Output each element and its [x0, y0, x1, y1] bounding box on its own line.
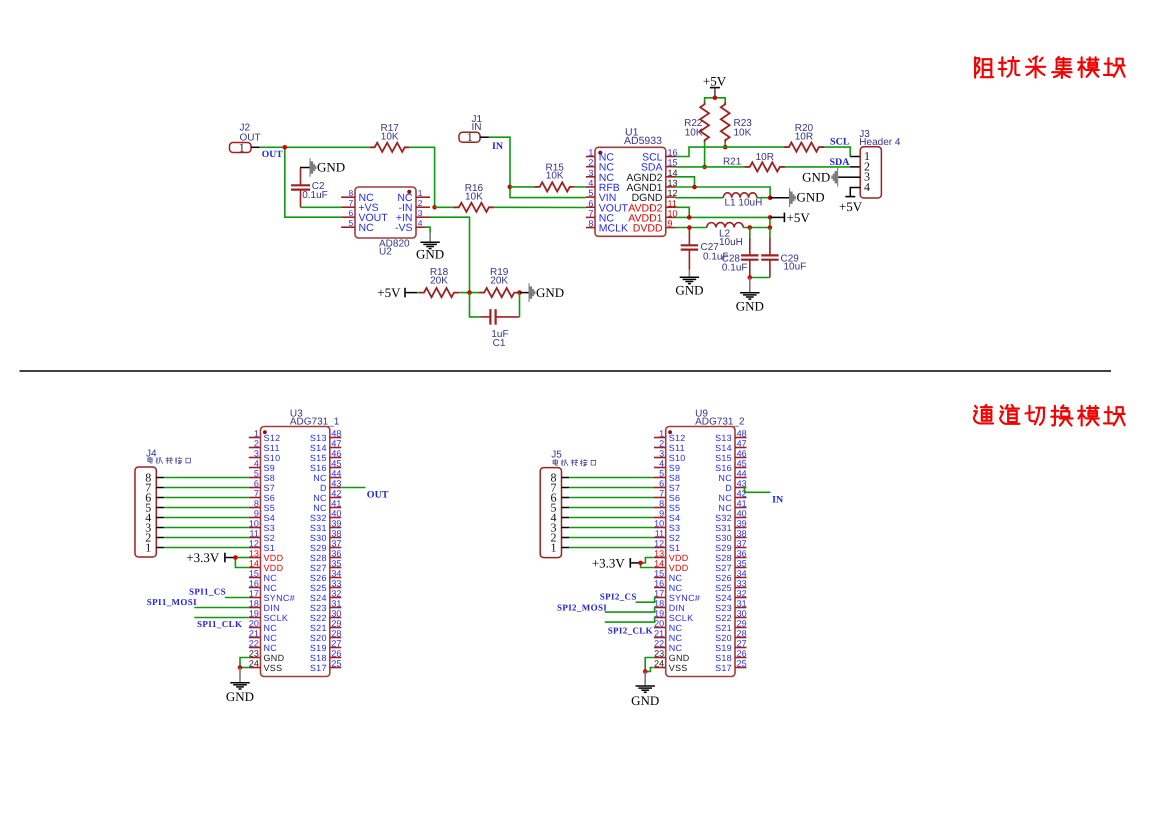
svg-text:SYNC#: SYNC#	[669, 593, 701, 603]
svg-text:OUT: OUT	[367, 489, 389, 500]
svg-text:0.1uF: 0.1uF	[302, 190, 328, 201]
svg-text:J5: J5	[551, 450, 562, 461]
svg-text:S7: S7	[669, 483, 681, 493]
capacitor C2 0.1uF	[291, 168, 328, 207]
wire SPI2_MOSI	[605, 608, 655, 613]
wire GND/VSS pins	[645, 658, 654, 672]
svg-text:21: 21	[654, 629, 664, 639]
svg-text:40: 40	[737, 509, 747, 519]
svg-text:35: 35	[737, 559, 747, 569]
resistor R21 10R	[723, 152, 785, 172]
svg-text:VDD: VDD	[669, 563, 689, 573]
section title: channel switching module (red)	[974, 405, 993, 423]
svg-text:17: 17	[654, 589, 664, 599]
svg-text:NC: NC	[264, 623, 278, 633]
svg-text:2: 2	[588, 158, 593, 168]
svg-text:S2: S2	[264, 533, 276, 543]
ground GND at C28/C29	[736, 278, 764, 314]
svg-text:2: 2	[254, 439, 259, 449]
svg-text:-VS: -VS	[395, 222, 413, 234]
svg-text:+5V: +5V	[787, 210, 811, 225]
svg-text:41: 41	[737, 499, 747, 509]
svg-text:34: 34	[331, 569, 341, 579]
svg-text:1: 1	[254, 429, 259, 439]
resistor R22 10K (vertical)	[684, 102, 709, 142]
svg-text:19: 19	[654, 609, 664, 619]
svg-text:8: 8	[254, 499, 259, 509]
svg-text:S10: S10	[669, 453, 686, 463]
wire R15 to U1.RFB	[575, 186, 586, 188]
junction C28/C29 gnd	[748, 275, 753, 280]
svg-text:47: 47	[737, 439, 747, 449]
svg-text:8: 8	[659, 499, 664, 509]
svg-text:U2: U2	[379, 247, 392, 258]
svg-text:16: 16	[654, 579, 664, 589]
svg-text:S6: S6	[264, 493, 276, 503]
svg-text:GND: GND	[264, 653, 285, 663]
svg-text:DIN: DIN	[264, 603, 280, 613]
svg-text:S27: S27	[715, 563, 732, 573]
svg-text:10R: 10R	[756, 152, 774, 163]
wire +5V to R22/R23 tops	[705, 98, 726, 103]
svg-text:46: 46	[331, 449, 341, 459]
svg-text:S4: S4	[264, 513, 276, 523]
capacitor C29 10uF	[750, 228, 806, 278]
svg-text:GND: GND	[797, 190, 825, 205]
svg-text:+5V: +5V	[703, 74, 727, 89]
wire SPI2_CLK	[605, 618, 655, 623]
svg-text:7: 7	[588, 208, 593, 218]
svg-text:S4: S4	[669, 513, 681, 523]
junction R19/C1	[517, 290, 522, 295]
svg-text:2: 2	[418, 198, 423, 208]
svg-text:D: D	[320, 483, 327, 493]
ground GND below U3	[226, 668, 254, 705]
svg-text:9: 9	[659, 509, 664, 519]
svg-text:45: 45	[737, 459, 747, 469]
svg-text:5: 5	[348, 218, 353, 228]
svg-text:S30: S30	[310, 533, 327, 543]
svg-text:S3: S3	[264, 523, 276, 533]
svg-text:NC: NC	[264, 633, 278, 643]
svg-text:S20: S20	[715, 633, 732, 643]
svg-text:SPI1_MOSI: SPI1_MOSI	[147, 597, 197, 607]
svg-text:GND: GND	[669, 653, 690, 663]
junction AVDD/+5V	[768, 215, 773, 220]
wire AGND2 to AGND1	[676, 177, 695, 187]
svg-text:28: 28	[331, 629, 341, 639]
svg-text:S9: S9	[264, 463, 276, 473]
wire GND/VSS pins	[240, 658, 249, 668]
svg-text:S15: S15	[310, 453, 327, 463]
svg-text:+5V: +5V	[377, 285, 401, 300]
svg-text:S16: S16	[310, 463, 327, 473]
svg-text:25: 25	[737, 659, 747, 669]
svg-text:43: 43	[331, 479, 341, 489]
svg-text:47: 47	[331, 439, 341, 449]
ground GND at C27	[675, 270, 703, 298]
IC U1 AD5933	[586, 127, 678, 237]
svg-text:S17: S17	[715, 663, 732, 673]
svg-text:GND: GND	[226, 689, 254, 704]
wire +3.3V to VDD pins	[641, 558, 654, 568]
wire net SCL: U1.16 to R20 to J3.1	[676, 147, 860, 156]
svg-text:48: 48	[331, 429, 341, 439]
svg-text:14: 14	[654, 559, 664, 569]
svg-text:24: 24	[654, 659, 664, 669]
svg-text:41: 41	[331, 499, 341, 509]
svg-text:+3.3V: +3.3V	[592, 555, 626, 570]
svg-text:10K: 10K	[734, 128, 752, 139]
svg-text:NC: NC	[359, 222, 375, 234]
svg-text:S6: S6	[669, 493, 681, 503]
svg-text:OUT: OUT	[262, 149, 283, 160]
svg-text:SPI2_MOSI: SPI2_MOSI	[557, 603, 607, 613]
svg-text:S8: S8	[264, 473, 276, 483]
svg-text:S8: S8	[669, 473, 681, 483]
svg-text:38: 38	[737, 529, 747, 539]
svg-text:18: 18	[654, 599, 664, 609]
svg-text:GND: GND	[416, 246, 444, 261]
wire C2 to U2 +VS	[301, 206, 342, 208]
wire R16 to U1.VOUT	[494, 206, 586, 208]
svg-text:5: 5	[588, 188, 593, 198]
svg-text:6: 6	[588, 198, 593, 208]
svg-text:NC: NC	[669, 633, 683, 643]
svg-text:37: 37	[737, 539, 747, 549]
svg-text:46: 46	[737, 449, 747, 459]
svg-text:NC: NC	[264, 573, 278, 583]
svg-text:S19: S19	[310, 643, 327, 653]
wire IN node to R15	[510, 186, 537, 188]
svg-text:S22: S22	[715, 613, 732, 623]
svg-text:IN: IN	[492, 141, 504, 152]
svg-text:S24: S24	[310, 593, 327, 603]
wire AGND1 row	[676, 187, 771, 198]
svg-text:4: 4	[418, 218, 423, 228]
svg-text:NC: NC	[718, 503, 732, 513]
svg-text:30: 30	[331, 609, 341, 619]
svg-text:45: 45	[331, 459, 341, 469]
svg-text:SPI1_CS: SPI1_CS	[189, 587, 226, 597]
svg-text:37: 37	[331, 539, 341, 549]
svg-text:S13: S13	[715, 433, 732, 443]
svg-text:3: 3	[588, 168, 593, 178]
junction +3.3V	[638, 561, 643, 566]
IC U9 ADG731_2	[654, 409, 747, 677]
junction +5V	[713, 96, 718, 101]
svg-text:S21: S21	[715, 623, 732, 633]
svg-text:7: 7	[659, 489, 664, 499]
ground GND at R19	[520, 283, 565, 302]
svg-text:S27: S27	[310, 563, 327, 573]
svg-text:11: 11	[250, 529, 259, 539]
junction AGND1	[692, 185, 697, 190]
wire +3.3V to VDD pins	[235, 558, 248, 568]
svg-text:32: 32	[737, 589, 747, 599]
svg-text:NC: NC	[718, 473, 732, 483]
svg-text:S32: S32	[715, 513, 732, 523]
svg-text:20: 20	[654, 619, 664, 629]
svg-text:20K: 20K	[430, 276, 448, 287]
capacitor C28 0.1uF	[722, 228, 759, 278]
svg-text:C1: C1	[493, 338, 506, 349]
svg-text:13: 13	[654, 549, 664, 559]
svg-text:NC: NC	[718, 493, 732, 503]
wire R18 to node	[459, 292, 484, 294]
svg-text:AD5933: AD5933	[624, 135, 662, 147]
svg-text:NC: NC	[264, 583, 278, 593]
junction R15 branch	[508, 185, 513, 190]
ground GND at C2	[300, 158, 345, 177]
junction R18/R19/C1/+IN	[467, 290, 472, 295]
svg-text:23: 23	[249, 649, 259, 659]
junction VSS	[238, 665, 243, 670]
svg-text:10uH: 10uH	[719, 237, 743, 248]
svg-text:3: 3	[254, 449, 259, 459]
svg-text:S1: S1	[264, 543, 276, 553]
svg-text:4: 4	[864, 180, 870, 194]
svg-text:14: 14	[249, 559, 259, 569]
svg-text:29: 29	[737, 619, 747, 629]
IC U3 ADG731_1	[249, 409, 342, 677]
svg-text:S24: S24	[715, 593, 732, 603]
svg-text:S14: S14	[310, 443, 327, 453]
connector J3 Header 4	[850, 129, 901, 198]
svg-text:S3: S3	[669, 523, 681, 533]
svg-text:27: 27	[737, 639, 747, 649]
junction L2/+5V rail	[768, 225, 773, 230]
wire -IN node to R16	[435, 206, 456, 208]
svg-text:31: 31	[331, 599, 341, 609]
svg-text:S11: S11	[669, 443, 685, 453]
svg-text:S13: S13	[310, 433, 327, 443]
svg-text:S12: S12	[669, 433, 686, 443]
svg-text:GND: GND	[536, 285, 564, 300]
junction R22/SDA	[702, 165, 707, 170]
svg-text:19: 19	[249, 609, 259, 619]
svg-text:GND: GND	[736, 298, 764, 313]
svg-text:18: 18	[249, 599, 259, 609]
svg-text:NC: NC	[313, 503, 327, 513]
svg-text:S19: S19	[715, 643, 732, 653]
svg-text:1: 1	[145, 540, 151, 554]
svg-text:31: 31	[737, 599, 747, 609]
wire net SDA: U1.15 to R21 to J3.2	[676, 166, 860, 168]
svg-text:8: 8	[588, 219, 593, 229]
svg-text:10: 10	[249, 519, 259, 529]
svg-text:S5: S5	[264, 503, 276, 513]
svg-text:1: 1	[551, 540, 557, 554]
svg-text:28: 28	[737, 629, 747, 639]
svg-text:38: 38	[331, 529, 341, 539]
svg-text:20K: 20K	[490, 276, 508, 287]
wire U2 +IN down to R18/R19 node	[430, 217, 470, 292]
svg-text:48: 48	[737, 429, 747, 439]
svg-text:10K: 10K	[546, 171, 564, 182]
svg-text:L1 10uH: L1 10uH	[725, 198, 763, 209]
svg-text:S21: S21	[310, 623, 327, 633]
svg-text:SCLK: SCLK	[264, 613, 289, 623]
junction DVDD/C27	[687, 225, 692, 230]
svg-text:GND: GND	[802, 169, 830, 184]
junction L2/C28	[748, 225, 753, 230]
svg-text:0.1uF: 0.1uF	[722, 262, 748, 273]
svg-text:12: 12	[249, 539, 259, 549]
svg-text:S14: S14	[715, 443, 732, 453]
svg-text:12: 12	[654, 539, 664, 549]
svg-text:39: 39	[737, 519, 747, 529]
wires J4 to U3 S8..S1	[164, 478, 249, 548]
svg-text:5: 5	[659, 469, 664, 479]
svg-text:D: D	[725, 483, 732, 493]
svg-text:R21: R21	[723, 156, 742, 167]
svg-text:7: 7	[348, 198, 353, 208]
inductor L1 10uH	[723, 193, 762, 209]
svg-text:GND: GND	[317, 159, 345, 174]
svg-text:25: 25	[331, 659, 341, 669]
divider line	[20, 370, 1112, 372]
svg-text:3: 3	[659, 449, 664, 459]
svg-text:1: 1	[239, 140, 245, 154]
svg-text:12: 12	[668, 188, 678, 198]
resistor R15 10K	[535, 162, 575, 191]
svg-text:9: 9	[668, 219, 673, 229]
svg-text:10K: 10K	[465, 192, 483, 203]
ground GND at J3 pin3	[802, 168, 851, 187]
svg-text:VDD: VDD	[669, 553, 689, 563]
svg-text:SDA: SDA	[829, 157, 850, 168]
svg-text:IN: IN	[772, 495, 784, 506]
svg-text:42: 42	[331, 489, 341, 499]
svg-text:DVDD: DVDD	[633, 223, 663, 235]
svg-text:7: 7	[254, 489, 259, 499]
svg-text:33: 33	[737, 579, 747, 589]
svg-text:S1: S1	[669, 543, 681, 553]
svg-text:S16: S16	[715, 463, 732, 473]
svg-text:5: 5	[254, 469, 259, 479]
svg-text:26: 26	[331, 649, 341, 659]
ground GND below U2 pin4	[416, 227, 444, 261]
svg-text:GND: GND	[675, 283, 703, 298]
svg-text:GND: GND	[631, 693, 659, 708]
svg-text:VDD: VDD	[264, 563, 284, 573]
resistor R16 10K	[454, 183, 494, 212]
svg-text:8: 8	[348, 188, 353, 198]
svg-text:MCLK: MCLK	[599, 223, 628, 235]
wire AVDD1 row to +5V	[676, 216, 771, 218]
svg-text:NC: NC	[669, 573, 683, 583]
svg-text:S5: S5	[669, 503, 681, 513]
svg-text:DIN: DIN	[669, 603, 685, 613]
svg-text:17: 17	[249, 589, 259, 599]
svg-text:3: 3	[418, 208, 423, 218]
wire DVDD row	[676, 217, 770, 227]
svg-text:S29: S29	[715, 543, 732, 553]
svg-text:10R: 10R	[795, 131, 813, 142]
power +3.3V	[186, 550, 235, 565]
svg-text:SCLK: SCLK	[669, 613, 694, 623]
svg-text:10K: 10K	[685, 128, 703, 139]
svg-text:S26: S26	[715, 573, 732, 583]
section title: impedance acquisition module (red)	[975, 57, 993, 77]
svg-text:S32: S32	[310, 513, 327, 523]
svg-text:4: 4	[588, 178, 593, 188]
wire net OUT: D pin	[341, 487, 365, 489]
power +3.3V	[592, 555, 641, 570]
svg-text:10K: 10K	[381, 132, 399, 143]
svg-text:S10: S10	[264, 453, 281, 463]
svg-text:NC: NC	[313, 493, 327, 503]
svg-text:10uF: 10uF	[784, 262, 807, 273]
resistor R17 10K	[370, 123, 410, 152]
junction AVDD	[687, 215, 692, 220]
junction VSS	[643, 669, 648, 674]
svg-text:S7: S7	[264, 483, 276, 493]
svg-text:S15: S15	[715, 453, 732, 463]
wire R17 to -IN node	[410, 147, 435, 207]
svg-text:2: 2	[659, 439, 664, 449]
svg-text:33: 33	[331, 579, 341, 589]
svg-text:34: 34	[737, 569, 747, 579]
svg-text:S28: S28	[715, 553, 732, 563]
resistor R23 10K (vertical)	[721, 102, 752, 142]
svg-text:35: 35	[331, 559, 341, 569]
svg-text:44: 44	[331, 469, 341, 479]
junction +3.3V	[233, 555, 238, 560]
svg-text:15: 15	[249, 569, 259, 579]
svg-text:VSS: VSS	[669, 663, 688, 673]
connector J5 electrode adapter	[540, 450, 595, 558]
wire SPI1_CLK	[194, 617, 249, 619]
svg-text:20: 20	[249, 619, 259, 629]
svg-text:SYNC#: SYNC#	[264, 593, 296, 603]
svg-text:NC: NC	[264, 643, 278, 653]
junction DGND/AGND	[768, 195, 773, 200]
resistor R19 20K	[479, 267, 519, 297]
svg-text:SPI2_CLK: SPI2_CLK	[608, 626, 653, 636]
svg-text:1: 1	[659, 429, 664, 439]
svg-text:S23: S23	[715, 603, 732, 613]
svg-text:S31: S31	[715, 523, 732, 533]
svg-text:S9: S9	[669, 463, 681, 473]
svg-text:J4: J4	[146, 448, 157, 459]
wire SPI1_CS	[225, 597, 249, 599]
svg-text:S22: S22	[310, 613, 327, 623]
svg-text:S18: S18	[310, 653, 327, 663]
svg-text:27: 27	[331, 639, 341, 649]
inductor L2 10uH	[707, 223, 743, 248]
svg-text:VDD: VDD	[264, 553, 284, 563]
svg-text:36: 36	[331, 549, 341, 559]
wire DGND row	[676, 197, 771, 199]
svg-text:29: 29	[331, 619, 341, 629]
svg-text:S28: S28	[310, 553, 327, 563]
wire net IN: D pin	[745, 488, 771, 493]
svg-text:S2: S2	[669, 533, 681, 543]
svg-text:10: 10	[654, 519, 664, 529]
power +5V at J3 pin4	[839, 188, 863, 214]
svg-text:NC: NC	[669, 583, 683, 593]
svg-text:23: 23	[654, 649, 664, 659]
junction at U2 -IN node	[432, 205, 437, 210]
svg-text:SCL: SCL	[830, 136, 850, 147]
junction R23/SCL	[723, 145, 728, 150]
svg-text:11: 11	[668, 198, 677, 208]
svg-text:16: 16	[249, 579, 259, 589]
svg-text:+3.3V: +3.3V	[186, 550, 220, 565]
svg-text:26: 26	[737, 649, 747, 659]
